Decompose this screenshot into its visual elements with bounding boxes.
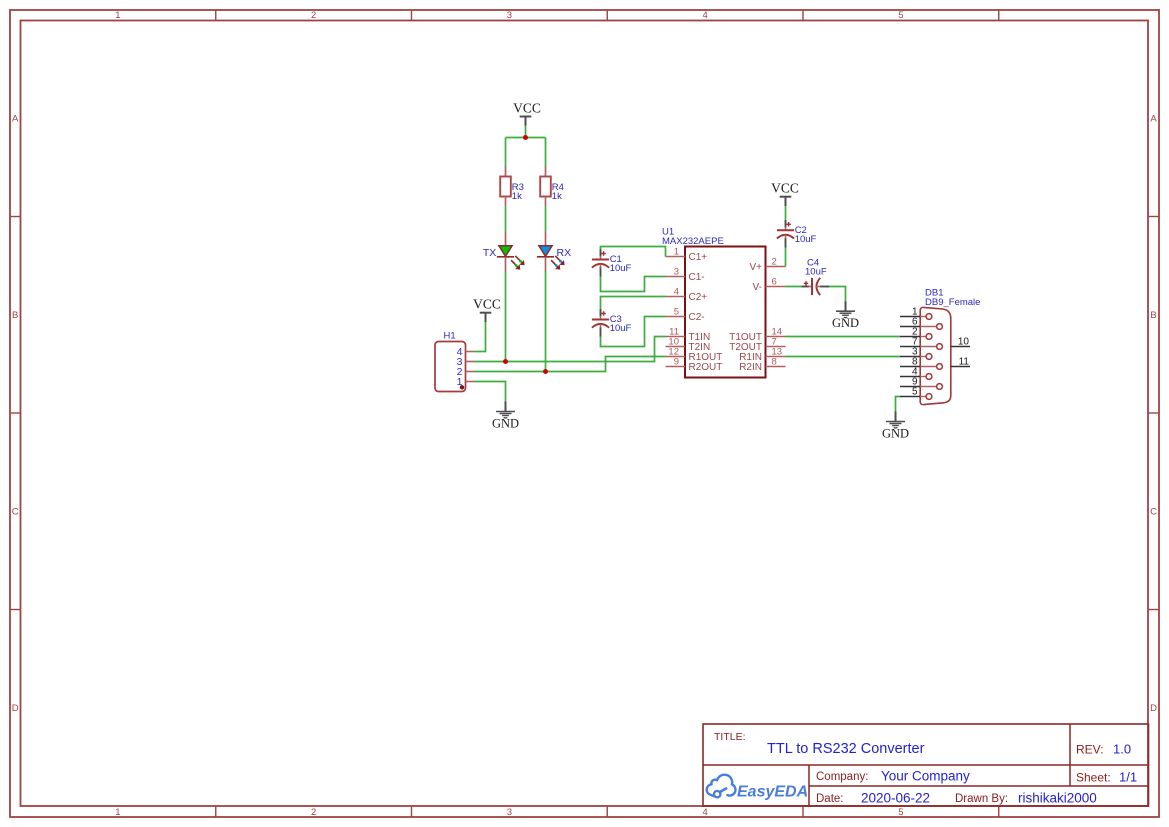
svg-text:C2-: C2- <box>689 312 705 323</box>
svg-text:10uF: 10uF <box>610 323 632 334</box>
svg-text:Sheet:: Sheet: <box>1076 771 1111 785</box>
U1 pin 8 R2IN <box>766 366 786 368</box>
svg-text:V-: V- <box>753 282 762 293</box>
U1 pin 4 C2+ <box>666 296 686 298</box>
DB1 pin 8 <box>900 366 920 368</box>
svg-text:4: 4 <box>702 10 707 21</box>
svg-text:RX: RX <box>557 247 572 259</box>
svg-text:2020-06-22: 2020-06-22 <box>861 791 930 806</box>
wire C1 bottom to U1 pin3 <box>601 277 666 292</box>
svg-text:1: 1 <box>115 10 120 21</box>
svg-text:3: 3 <box>507 10 512 21</box>
svg-text:5: 5 <box>912 387 918 398</box>
svg-text:TITLE:: TITLE: <box>714 731 746 743</box>
svg-text:10uF: 10uF <box>795 234 817 245</box>
U1 pin 11 T1IN <box>666 336 686 338</box>
svg-text:9: 9 <box>674 357 679 368</box>
LED TX <box>505 232 507 247</box>
wire to R3 <box>505 138 507 167</box>
svg-text:TX: TX <box>483 247 496 259</box>
wire H1 pin1 to GND <box>474 382 506 402</box>
svg-text:2: 2 <box>311 807 316 818</box>
wire C3 bottom to U1 pin5 <box>601 317 666 347</box>
connector H1 <box>435 342 466 392</box>
junction node VCC rail <box>523 135 528 140</box>
DB1 pin 9 <box>900 386 920 388</box>
svg-text:5: 5 <box>898 807 903 818</box>
op-amp U1 MAX232AEPE body <box>685 247 766 378</box>
wire to R4 <box>545 138 547 167</box>
svg-text:B: B <box>1150 310 1156 321</box>
svg-text:DB9_Female: DB9_Female <box>925 297 980 308</box>
svg-text:A: A <box>1150 114 1157 125</box>
svg-text:10: 10 <box>958 337 970 348</box>
svg-text:V+: V+ <box>749 262 762 273</box>
wire C2 to U1 pin2 <box>785 247 787 266</box>
wire VCC to C2 <box>785 206 787 220</box>
H1 pin 2 <box>466 371 475 373</box>
DB1 pin 5 <box>900 396 920 398</box>
U1 pin 14 T1OUT <box>766 336 786 338</box>
U1 pin 10 T2IN <box>666 346 686 348</box>
svg-text:GND: GND <box>832 316 859 330</box>
svg-text:2: 2 <box>772 257 777 268</box>
wire C3 top to U1 pin4 <box>601 297 666 310</box>
svg-text:H1: H1 <box>444 331 456 342</box>
wire T1OUT to DB9 pin2 <box>786 336 901 338</box>
svg-text:MAX232AEPE: MAX232AEPE <box>662 236 724 247</box>
U1 pin 2 V+ <box>766 266 786 268</box>
junction node RX/pin2 <box>543 369 548 374</box>
GND net flag <box>505 402 507 412</box>
U1 pin 9 R2OUT <box>666 366 686 368</box>
svg-text:5: 5 <box>674 307 679 318</box>
svg-text:Your Company: Your Company <box>881 769 970 784</box>
EasyEDA logo <box>707 775 736 798</box>
GND net flag <box>895 412 897 422</box>
U1 pin 12 R1OUT <box>666 356 686 358</box>
LED RX <box>545 232 547 247</box>
svg-text:5: 5 <box>898 10 903 21</box>
junction node TX/pin3 <box>503 359 508 364</box>
svg-text:C1+: C1+ <box>689 252 708 263</box>
wire TX LED to node <box>505 271 507 362</box>
svg-text:D: D <box>12 703 19 714</box>
H1 pin 1 <box>466 381 475 383</box>
DB1 pin 6 <box>900 326 920 328</box>
svg-text:2: 2 <box>311 10 316 21</box>
svg-text:TTL to RS232 Converter: TTL to RS232 Converter <box>767 741 925 757</box>
U1 pin 13 R1IN <box>766 356 786 358</box>
H1 pin 4 <box>466 351 475 353</box>
svg-text:4: 4 <box>702 807 707 818</box>
svg-text:1: 1 <box>674 247 679 258</box>
svg-text:REV:: REV: <box>1076 743 1104 757</box>
svg-text:C2+: C2+ <box>689 292 708 303</box>
H1 pin 3 <box>466 361 475 363</box>
svg-text:11: 11 <box>959 357 970 368</box>
svg-text:8: 8 <box>772 357 777 368</box>
wire VCC to junction <box>525 126 527 138</box>
resistor R3 <box>505 167 507 177</box>
svg-text:VCC: VCC <box>473 297 501 312</box>
svg-text:C: C <box>1150 507 1157 518</box>
svg-text:B: B <box>12 310 18 321</box>
wire U1 pin6 to C4 <box>786 286 802 288</box>
svg-text:1/1: 1/1 <box>1119 770 1137 785</box>
capacitor C1 <box>600 249 602 257</box>
U1 pin 5 C2- <box>666 316 686 318</box>
svg-text:Drawn By:: Drawn By: <box>955 793 1008 805</box>
DB1 pin 4 <box>900 376 920 378</box>
svg-text:6: 6 <box>772 277 777 288</box>
svg-text:GND: GND <box>492 417 519 431</box>
capacitor C4 <box>802 286 810 288</box>
wire C1 top to U1 pin1 <box>601 247 666 257</box>
svg-text:10uF: 10uF <box>805 266 827 277</box>
DB1 pin 11 <box>951 366 970 368</box>
wire H1 pin3 to T1IN <box>474 337 666 362</box>
wire DB9 pin5 to GND <box>896 397 901 412</box>
wire R1IN to DB9 pin3 <box>786 356 901 358</box>
U1 pin 7 T2OUT <box>766 346 786 348</box>
svg-text:A: A <box>12 114 19 125</box>
H1 pin1 marker dot <box>460 385 464 389</box>
svg-text:10uF: 10uF <box>610 263 632 274</box>
DB1 pin 7 <box>900 346 920 348</box>
svg-text:rishikaki2000: rishikaki2000 <box>1018 791 1097 806</box>
DB1 pin 3 <box>900 356 920 358</box>
DB1 pin 1 <box>900 316 920 318</box>
wire H1 pin2 to R1OUT <box>474 357 666 372</box>
svg-text:GND: GND <box>882 427 909 441</box>
wire R3 to TX LED <box>505 206 507 231</box>
svg-text:3: 3 <box>674 267 679 278</box>
svg-text:1: 1 <box>115 807 120 818</box>
wire C4 to GND <box>829 287 845 302</box>
svg-text:R2OUT: R2OUT <box>689 362 723 373</box>
resistor R4 <box>545 167 547 177</box>
svg-text:4: 4 <box>674 287 679 298</box>
svg-text:C1-: C1- <box>689 272 705 283</box>
svg-text:VCC: VCC <box>513 101 541 116</box>
svg-text:C: C <box>12 507 19 518</box>
wire H1 pin4 to VCC <box>474 322 486 352</box>
svg-text:R2IN: R2IN <box>739 362 762 373</box>
wire RX LED to node <box>545 271 547 372</box>
capacitor C3 <box>600 309 602 317</box>
svg-text:1k: 1k <box>512 191 522 202</box>
U1 pin 1 C1+ <box>666 256 686 258</box>
svg-text:Date:: Date: <box>816 793 844 805</box>
GND net flag <box>845 301 847 311</box>
wire R4 to RX LED <box>545 206 547 231</box>
svg-text:1k: 1k <box>552 191 562 202</box>
title block <box>703 724 1149 806</box>
DB1 pin 2 <box>900 336 920 338</box>
svg-text:VCC: VCC <box>771 181 799 196</box>
connector DB1 DB9_Female outline <box>920 307 951 404</box>
svg-text:D: D <box>1150 703 1157 714</box>
svg-text:EasyEDA: EasyEDA <box>737 784 808 801</box>
wire top rail <box>506 137 546 139</box>
capacitor C2 <box>785 220 787 228</box>
svg-text:1.0: 1.0 <box>1113 742 1131 757</box>
U1 pin 6 V- <box>766 286 786 288</box>
svg-text:3: 3 <box>507 807 512 818</box>
svg-text:Company:: Company: <box>816 771 868 783</box>
U1 pin 3 C1- <box>666 276 686 278</box>
DB1 pin 10 <box>951 346 970 348</box>
